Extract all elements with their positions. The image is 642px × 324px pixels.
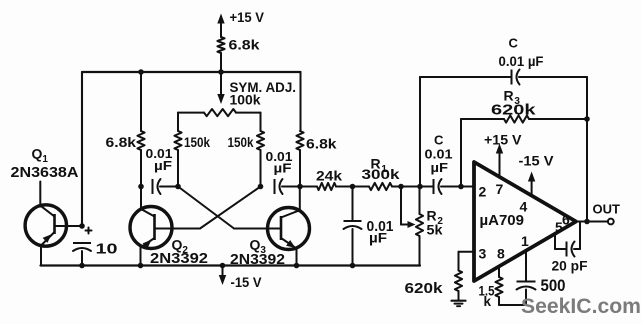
svg-text:OUT: OUT xyxy=(593,202,621,217)
label 2N3392 (Q3) xyxy=(230,252,285,268)
svg-text:8: 8 xyxy=(497,246,505,262)
pin 5 xyxy=(555,219,563,235)
svg-text:µF: µF xyxy=(431,160,449,175)
wire top rail left corner down xyxy=(81,72,83,226)
pin 3 xyxy=(479,246,487,262)
resistor 6.8k (supply dropper) xyxy=(217,37,259,54)
node output junction xyxy=(584,219,590,225)
label Q1 xyxy=(32,146,49,166)
resistor 6.8k left (Q2 collector load) xyxy=(106,131,145,150)
svg-text:k: k xyxy=(484,294,492,309)
pin 2 xyxy=(479,184,487,200)
node rail/shunt cap xyxy=(350,263,356,269)
svg-text:C: C xyxy=(509,36,519,51)
svg-text:150k: 150k xyxy=(228,135,254,150)
capacitor 0.01uF right (speed-up) xyxy=(266,150,293,194)
wire cross-couple Q3base xyxy=(178,187,268,229)
node R1 right / wiper junction xyxy=(398,184,404,190)
svg-text:620k: 620k xyxy=(491,102,536,119)
label 2N3638A xyxy=(11,164,79,181)
capacitor 10uF electrolytic xyxy=(73,228,118,258)
power +15V op-amp arrow xyxy=(484,133,522,177)
svg-text:-15 V: -15 V xyxy=(519,154,554,169)
wire pin8 down xyxy=(498,266,500,277)
potentiometer SYM ADJ wiper arrow xyxy=(217,72,224,104)
op-amp U1 uA709 triangle xyxy=(474,162,576,281)
label C 0.01uF series xyxy=(425,133,453,176)
wire pot left end down xyxy=(177,113,179,131)
svg-text:3: 3 xyxy=(479,246,487,262)
terminal OUT xyxy=(593,202,621,225)
capacitor 500pF xyxy=(517,276,566,305)
node Q3 collector junction xyxy=(297,184,303,190)
svg-text:6.8k: 6.8k xyxy=(106,134,137,150)
pin 1 xyxy=(521,233,529,249)
resistor 150k right xyxy=(228,131,265,150)
resistor 150k left xyxy=(174,131,210,150)
power -15V supply arrow xyxy=(219,263,262,290)
power -15V op-amp arrow xyxy=(519,154,554,196)
label SYM. ADJ. 100k xyxy=(230,80,297,108)
wire feedback right riser xyxy=(586,77,588,222)
svg-text:300k: 300k xyxy=(362,166,400,182)
resistor 24k xyxy=(316,168,342,191)
power +15V supply arrow xyxy=(217,9,264,37)
wire left 6.8k bottom xyxy=(140,150,142,187)
resistor 6.8k right (Q3 collector load) xyxy=(296,131,336,152)
svg-text:500: 500 xyxy=(541,276,566,295)
pin 7 xyxy=(496,181,504,197)
wire R2 wiper xyxy=(401,187,416,229)
svg-text:5k: 5k xyxy=(427,222,443,238)
wire Q2 collector xyxy=(140,187,142,210)
svg-text:6.8k: 6.8k xyxy=(306,136,337,152)
resistor R3 620k line xyxy=(461,115,587,122)
svg-text:20 pF: 20 pF xyxy=(552,259,588,274)
svg-text:7: 7 xyxy=(496,181,504,197)
ground symbol xyxy=(452,291,466,306)
wire 24k to node xyxy=(336,186,353,188)
wire cap to 150k-left node xyxy=(160,186,178,188)
label uA709 xyxy=(480,213,525,229)
svg-text:4: 4 xyxy=(520,199,528,215)
wire R1 to feedback node xyxy=(401,186,420,188)
transistor Q3 2N3392 xyxy=(268,208,310,266)
capacitor C 0.01uF feedback xyxy=(499,36,544,85)
svg-text:SeekIC.com: SeekIC.com xyxy=(521,294,641,318)
svg-text:1: 1 xyxy=(521,233,529,249)
wire top rail right corner down to 6.8k xyxy=(300,72,302,131)
potentiometer R2 5k xyxy=(416,187,423,266)
wire output xyxy=(576,221,608,223)
capacitor 20pF compensation xyxy=(552,222,588,274)
label 2N3392 (Q2) xyxy=(150,251,208,267)
node R3/feedback riser xyxy=(584,116,590,122)
wire bottom rail xyxy=(41,264,421,266)
wire cap to bottom rail xyxy=(81,251,83,266)
svg-text:Q: Q xyxy=(250,237,261,253)
wire top feedback line xyxy=(420,76,587,78)
pin 8 xyxy=(497,246,505,262)
svg-text:100k: 100k xyxy=(230,93,261,108)
wire left 150k bottom xyxy=(177,150,179,187)
node R1 left / shunt cap junction xyxy=(350,184,356,190)
pin 4 xyxy=(520,199,528,215)
node top rail / left 6.8k junction xyxy=(138,69,144,75)
svg-text:µF: µF xyxy=(154,159,172,173)
watermark SeekIC.com xyxy=(521,294,641,318)
capacitor 0.01uF left (speed-up) xyxy=(146,147,173,194)
svg-text:+15 V: +15 V xyxy=(230,9,265,25)
label Q3 xyxy=(250,237,267,257)
node top rail / +15V junction xyxy=(218,69,224,75)
wire feedback top riser xyxy=(419,77,421,187)
wire cross-couple Q2base xyxy=(172,187,261,229)
wire right 6.8k bottom xyxy=(299,150,301,187)
wire 6.8k to top rail xyxy=(220,53,222,72)
svg-text:-15 V: -15 V xyxy=(231,274,263,290)
node rail/cap junction xyxy=(79,263,85,269)
wire cap to Q3 collector node xyxy=(282,186,300,188)
svg-text:0.01 µF: 0.01 µF xyxy=(499,54,544,69)
node rail/Q2 emitter xyxy=(138,263,144,269)
wire pin1 down xyxy=(525,251,527,282)
svg-text:2: 2 xyxy=(479,184,487,200)
wire right 150k bottom xyxy=(260,150,262,187)
svg-text:µA709: µA709 xyxy=(480,213,525,229)
wire 1.5k to cap bottom xyxy=(499,297,526,305)
wire to op-amp pin2 xyxy=(461,186,474,188)
svg-text:10: 10 xyxy=(96,241,118,258)
svg-text:2N3638A: 2N3638A xyxy=(11,164,79,181)
pin 6 xyxy=(562,212,570,228)
node Q1 collector / filter junction xyxy=(79,223,85,229)
capacitor 0.01uF shunt xyxy=(344,187,394,266)
node Q2 collector junction xyxy=(138,184,144,190)
node 150k right bottom xyxy=(258,184,264,190)
capacitor C 0.01uF series xyxy=(420,179,461,194)
label R1 300k xyxy=(362,156,400,183)
label R3 620k xyxy=(491,88,536,119)
wire pin3 to 620k xyxy=(459,252,475,271)
wire Q1 emitter corner xyxy=(40,246,42,266)
svg-text:µF: µF xyxy=(369,231,387,246)
svg-text:C: C xyxy=(434,133,444,148)
svg-text:24k: 24k xyxy=(316,168,342,184)
wire Q3 collector xyxy=(299,187,301,211)
svg-text:µF: µF xyxy=(274,162,292,176)
potentiometer 100k body xyxy=(178,109,261,116)
svg-text:6: 6 xyxy=(562,212,570,228)
label Q2 xyxy=(172,237,189,257)
svg-text:Q: Q xyxy=(32,146,43,162)
wire pot right end down xyxy=(260,113,262,131)
label R2 5k xyxy=(427,208,444,238)
node R3 bottom junction xyxy=(458,184,464,190)
wire top rail xyxy=(82,71,301,73)
resistor 620k (pin3) xyxy=(405,271,463,298)
wire R3 left riser xyxy=(460,119,462,187)
node rail/Q3 emitter xyxy=(294,263,300,269)
svg-text:150k: 150k xyxy=(184,135,210,150)
node 150k left bottom xyxy=(175,184,181,190)
svg-text:620k: 620k xyxy=(405,280,444,297)
resistor 1.5k xyxy=(479,277,503,309)
transistor Q2 2N3392 xyxy=(130,207,172,266)
wire left 6.8k top xyxy=(140,72,142,131)
resistor R1 300k xyxy=(353,183,402,190)
svg-text:6.8k: 6.8k xyxy=(229,37,260,53)
svg-text:+15 V: +15 V xyxy=(484,133,522,148)
wire Q3 collector to 24k xyxy=(300,186,317,188)
transistor Q1 2N3638A xyxy=(25,182,82,266)
node feedback cap junction xyxy=(417,184,423,190)
